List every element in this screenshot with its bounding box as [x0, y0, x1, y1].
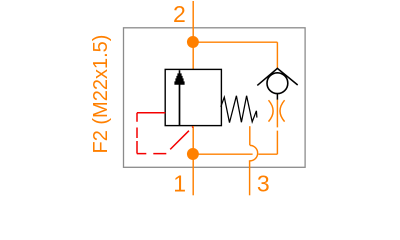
valve arrow shaft: [179, 84, 181, 125]
wire bottom horizontal right part: [258, 153, 277, 155]
orifice left arc: [269, 100, 274, 121]
valve body square: [165, 69, 221, 125]
svg-text:F2 (M22x1.5): F2 (M22x1.5): [90, 35, 112, 154]
check valve seat: [257, 68, 297, 85]
svg-text:2: 2: [173, 1, 186, 27]
orifice right arc: [280, 100, 285, 121]
pilot line horizontal bottom: [137, 153, 167, 155]
wire bottom horizontal left part: [193, 153, 252, 155]
svg-text:3: 3: [257, 171, 270, 197]
port 2 wire: [192, 1, 194, 71]
wire top horizontal: [193, 41, 277, 43]
enclosure frame: [124, 28, 306, 168]
check valve stub: [276, 94, 278, 100]
wire below check valve: [276, 100, 278, 154]
spring: [221, 96, 257, 123]
spring drain wire upper: [249, 126, 251, 145]
port 1 wire: [192, 126, 194, 195]
pilot line horizontal top: [137, 112, 165, 114]
junction node top: [187, 36, 199, 48]
junction node bottom: [187, 148, 199, 160]
port 3 wire: [249, 161, 251, 195]
check valve ball: [267, 73, 288, 94]
pilot line vertical: [136, 113, 138, 154]
pilot line diagonal: [170, 127, 193, 150]
wire hop over bottom line: [249, 145, 258, 161]
valve arrow head: [174, 70, 184, 85]
svg-text:1: 1: [173, 171, 186, 197]
wire to check valve: [276, 42, 278, 68]
